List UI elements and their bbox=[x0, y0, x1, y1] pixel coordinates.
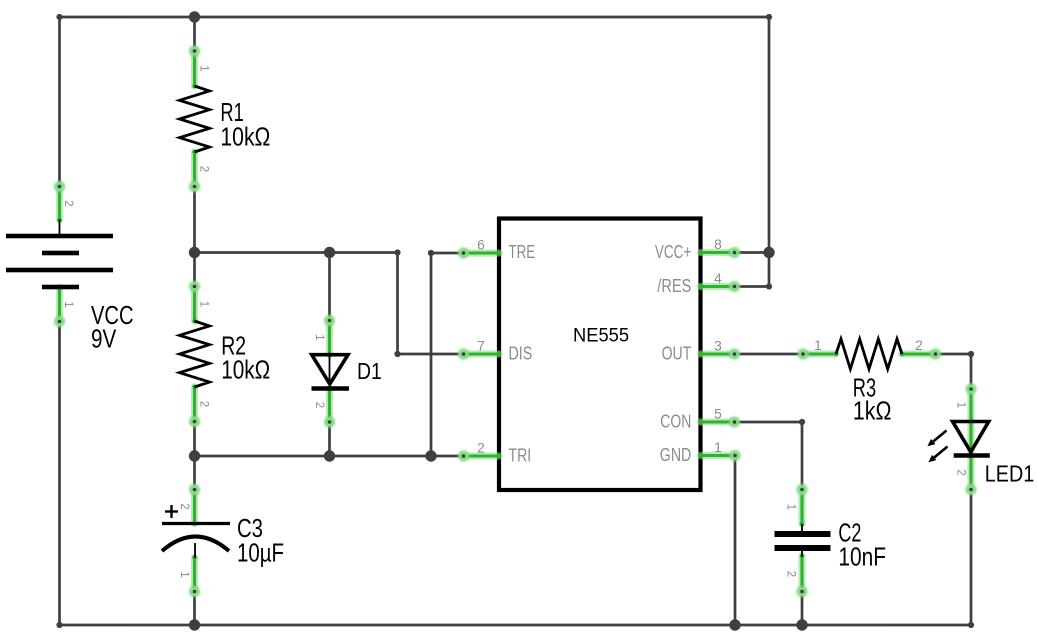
wire DIS horizontal bbox=[398, 353, 464, 356]
wire D1 top bbox=[328, 253, 331, 321]
pin number 3 bbox=[714, 339, 722, 354]
pin name VCC+ bbox=[655, 242, 691, 262]
pin name GND bbox=[660, 445, 692, 465]
svg-text:1: 1 bbox=[198, 301, 210, 307]
bend top-right corner bbox=[766, 14, 772, 20]
pin name CON bbox=[660, 412, 691, 432]
svg-text:2: 2 bbox=[477, 441, 485, 456]
label NE555 bbox=[573, 324, 629, 346]
svg-text:1: 1 bbox=[198, 65, 210, 71]
svg-text:CON: CON bbox=[660, 412, 691, 432]
wire GND drop bbox=[734, 456, 737, 626]
capacitor C2 bbox=[775, 483, 831, 599]
pin name /RES bbox=[657, 276, 691, 296]
bend CON/C2 corner bbox=[799, 419, 805, 425]
junction TRE-TRI riser on bottom node bbox=[425, 450, 436, 461]
IC pin TRI stub bbox=[457, 449, 502, 463]
R3 pin 2 label bbox=[915, 338, 923, 353]
svg-text:/RES: /RES bbox=[657, 276, 691, 296]
LED1 pin 2 label bbox=[955, 469, 967, 475]
wire R1 top bbox=[193, 17, 196, 51]
svg-text:1: 1 bbox=[313, 334, 325, 340]
junction VCC+ riser bbox=[763, 247, 774, 258]
svg-text:GND: GND bbox=[660, 445, 692, 465]
svg-text:1: 1 bbox=[714, 440, 722, 455]
wire bottom rail bbox=[60, 624, 972, 627]
IC pin DIS stub bbox=[457, 347, 502, 361]
wire C3 top bbox=[193, 456, 196, 490]
bend TRE riser top bbox=[428, 250, 434, 256]
svg-text:2: 2 bbox=[915, 338, 923, 353]
resistor R1 bbox=[180, 44, 210, 193]
label C2 value 10nF bbox=[838, 541, 886, 571]
svg-text:2: 2 bbox=[198, 166, 210, 172]
pin number 4 bbox=[714, 271, 722, 286]
label VCC bbox=[91, 300, 134, 330]
LED LED1 bbox=[927, 382, 989, 496]
svg-text:6: 6 bbox=[477, 238, 485, 253]
wire R2 bottom bbox=[193, 422, 196, 457]
wire LED drop lower bbox=[970, 490, 973, 626]
svg-text:1: 1 bbox=[178, 571, 190, 577]
bend DIS riser bottom bbox=[394, 351, 400, 357]
svg-text:TRI: TRI bbox=[509, 446, 532, 466]
IC pin OUT stub bbox=[698, 347, 741, 361]
wire R3 to LED corner bbox=[936, 353, 972, 356]
wire node A horizontal (R1/R2 junction to DIS riser) bbox=[195, 251, 398, 254]
svg-text:DIS: DIS bbox=[509, 344, 533, 364]
label R3 bbox=[853, 373, 876, 403]
svg-text:10kΩ: 10kΩ bbox=[221, 355, 270, 385]
C2 pin 1 label bbox=[785, 504, 797, 510]
wire VCC+ to riser bbox=[735, 251, 770, 254]
svg-text:2: 2 bbox=[62, 200, 74, 206]
label C2 bbox=[838, 518, 861, 548]
svg-text:2: 2 bbox=[313, 402, 325, 408]
wire CON to C2 bbox=[735, 421, 803, 424]
pin number 8 bbox=[714, 237, 722, 252]
pin number 6 bbox=[477, 238, 485, 253]
bend top-left corner bbox=[56, 14, 62, 20]
svg-text:NE555: NE555 bbox=[573, 324, 629, 346]
wire TRE horizontal bbox=[431, 252, 464, 255]
pin number 7 bbox=[477, 339, 485, 354]
R1 pin 1 label bbox=[198, 65, 210, 71]
junction D1 cathode on bottom node bbox=[324, 450, 335, 461]
C3 pin 2 label bbox=[178, 503, 190, 509]
wire C2 top bbox=[801, 422, 804, 490]
bend /RES corner bbox=[766, 283, 772, 289]
pin name TRI bbox=[509, 446, 532, 466]
svg-text:TRE: TRE bbox=[509, 242, 536, 262]
svg-text:LED1: LED1 bbox=[985, 461, 1035, 487]
pin number 2 (TRI) bbox=[477, 441, 485, 456]
C2 pin 2 label bbox=[785, 571, 797, 577]
wire OUT to R3 bbox=[735, 353, 804, 356]
label C3 value 10uF bbox=[237, 538, 284, 568]
wire TRE-TRI vertical bbox=[430, 253, 433, 456]
svg-text:10µF: 10µF bbox=[237, 538, 284, 568]
junction bottom rail / GND bbox=[729, 619, 740, 630]
junction bottom rail / C3 bbox=[189, 619, 200, 630]
D1 pin 2 label bbox=[313, 402, 325, 408]
svg-text:10nF: 10nF bbox=[838, 541, 886, 571]
battery pin 2 label bbox=[62, 200, 74, 206]
wire R1 to R2 junction bbox=[193, 187, 196, 287]
svg-text:1: 1 bbox=[785, 504, 797, 510]
wire C3 bottom bbox=[193, 592, 196, 626]
junction top rail / R1 bbox=[189, 11, 200, 22]
label R1 bbox=[220, 97, 243, 127]
IC pin VCC+ stub bbox=[698, 246, 741, 260]
wire left rail lower (battery -) bbox=[58, 322, 61, 626]
IC pin CON stub bbox=[698, 415, 741, 429]
svg-text:VCC+: VCC+ bbox=[655, 242, 691, 262]
R2 pin 1 label bbox=[198, 301, 210, 307]
pin name OUT bbox=[662, 344, 692, 364]
label R2 bbox=[221, 331, 246, 361]
bend bottom-right corner bbox=[968, 622, 974, 628]
D1 pin 1 label bbox=[313, 334, 325, 340]
battery pin 1 label bbox=[62, 301, 74, 307]
junction bottom rail / C2 bbox=[796, 619, 807, 630]
junction R2/D1/C3/TRI bbox=[189, 450, 200, 461]
wire C2 bottom bbox=[801, 592, 804, 626]
bend bottom-left corner bbox=[56, 622, 62, 628]
svg-text:2: 2 bbox=[955, 469, 967, 475]
svg-text:2: 2 bbox=[198, 401, 210, 407]
label R3 value 1k bbox=[853, 395, 892, 425]
svg-text:9V: 9V bbox=[91, 324, 117, 354]
svg-text:5: 5 bbox=[714, 407, 722, 422]
svg-text:D1: D1 bbox=[357, 358, 382, 384]
wire bottom node horizontal (R2/D1/C3 to TRI) bbox=[195, 455, 464, 458]
svg-text:1: 1 bbox=[62, 301, 74, 307]
label D1 bbox=[357, 358, 382, 384]
wire DIS riser vertical bbox=[396, 253, 399, 355]
svg-text:8: 8 bbox=[714, 237, 722, 252]
resistor R3 bbox=[796, 339, 942, 369]
pin name DIS bbox=[509, 344, 533, 364]
label R1 value 10k bbox=[220, 122, 270, 152]
capacitor C3 (polarized) bbox=[162, 483, 230, 599]
junction D1 anode on node A bbox=[324, 247, 335, 258]
battery VCC 9V bbox=[6, 180, 113, 329]
label LED1 bbox=[985, 461, 1035, 487]
IC pin GND stub bbox=[698, 449, 742, 463]
R2 pin 2 label bbox=[198, 401, 210, 407]
node A junction R1/R2/DIS bbox=[189, 247, 200, 258]
IC pin TRE stub bbox=[457, 246, 502, 260]
svg-text:1: 1 bbox=[955, 402, 967, 408]
svg-text:2: 2 bbox=[178, 503, 190, 509]
C3 pin 1 label bbox=[178, 571, 190, 577]
svg-text:4: 4 bbox=[714, 271, 722, 286]
label 9V bbox=[91, 324, 117, 354]
R3 pin 1 label bbox=[814, 338, 822, 353]
label C3 bbox=[237, 513, 263, 543]
wire D1 bottom bbox=[328, 422, 331, 456]
resistor R2 bbox=[180, 280, 210, 429]
pin number 1 (GND) bbox=[714, 440, 722, 455]
wire LED drop upper bbox=[970, 354, 973, 389]
bend DIS riser top bbox=[394, 249, 400, 255]
wire top rail bbox=[60, 16, 770, 19]
IC pin /RES stub bbox=[698, 280, 741, 294]
label R2 value 10k bbox=[221, 355, 270, 385]
op-amp/IC U1 NE555 body bbox=[499, 219, 701, 491]
svg-text:7: 7 bbox=[477, 339, 485, 354]
svg-text:3: 3 bbox=[714, 339, 722, 354]
wire /RES to riser bbox=[735, 285, 770, 288]
svg-text:OUT: OUT bbox=[662, 344, 692, 364]
diode D1 bbox=[312, 314, 350, 429]
pin name TRE bbox=[509, 242, 536, 262]
svg-text:1: 1 bbox=[814, 338, 822, 353]
svg-text:10kΩ: 10kΩ bbox=[220, 122, 270, 152]
svg-text:2: 2 bbox=[785, 571, 797, 577]
wire left rail upper (battery +) bbox=[58, 17, 61, 187]
wire VCC riser bbox=[768, 17, 771, 287]
R1 pin 2 label bbox=[198, 166, 210, 172]
bend R3/LED corner bbox=[968, 351, 974, 357]
svg-text:1kΩ: 1kΩ bbox=[853, 395, 892, 425]
pin number 5 bbox=[714, 407, 722, 422]
LED1 pin 1 label bbox=[955, 402, 967, 408]
